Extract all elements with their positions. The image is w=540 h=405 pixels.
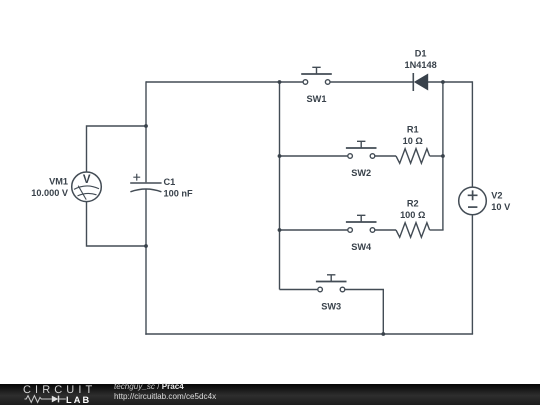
svg-text:100 Ω: 100 Ω — [400, 210, 425, 220]
node R1 right — [441, 154, 445, 158]
svg-text:10.000 V: 10.000 V — [31, 188, 69, 198]
node SW2 row — [278, 154, 282, 158]
footer bar — [0, 384, 540, 405]
wire top from left corner to SW1 — [146, 81, 303, 83]
wire SW4 row left — [280, 229, 348, 231]
wire R1 to right — [430, 155, 443, 157]
svg-text:R1: R1 — [407, 124, 419, 134]
svg-text:V2: V2 — [491, 191, 502, 201]
node SW3 bottom — [381, 332, 385, 336]
wire bottom — [145, 333, 473, 335]
svg-text:C1: C1 — [164, 177, 176, 187]
wire VM1 top stub — [87, 126, 147, 172]
wire VM1 bottom stub — [87, 202, 147, 246]
node top-center — [278, 80, 282, 84]
wire SW3 right and down — [345, 290, 383, 335]
wire SW4 to R2 — [375, 229, 396, 231]
capacitor C1 — [130, 174, 161, 192]
wire SW3 row left — [280, 289, 318, 291]
wire center vertical — [279, 82, 281, 290]
voltmeter VM1 — [72, 172, 102, 202]
svg-text:10 V: 10 V — [491, 202, 511, 212]
wire SW1 to D1 — [330, 81, 413, 83]
svg-text:V: V — [83, 174, 91, 186]
footer url — [114, 392, 216, 401]
CircuitLab logo — [23, 385, 96, 396]
svg-text:R2: R2 — [407, 198, 419, 208]
wire right vertical below V2 — [471, 215, 473, 334]
node SW4 row — [278, 228, 282, 232]
node VM1 bottom — [144, 244, 148, 248]
wire R branch vertical — [442, 82, 444, 230]
voltage source V2 — [459, 187, 487, 215]
wire D1 to top-right corner — [428, 81, 472, 83]
svg-text:SW1: SW1 — [307, 94, 327, 104]
svg-text:VM1: VM1 — [49, 177, 68, 187]
node VM1 top — [144, 124, 148, 128]
wire right vertical above V2 — [471, 81, 473, 186]
wire left vertical below C1 — [145, 189, 147, 335]
switch SW4 — [346, 215, 377, 232]
footer title — [114, 382, 184, 391]
wire R2 to right — [430, 229, 444, 231]
svg-text:D1: D1 — [415, 49, 427, 59]
switch SW1 — [301, 67, 332, 84]
svg-text:100 nF: 100 nF — [164, 188, 193, 198]
svg-text:10 Ω: 10 Ω — [403, 136, 423, 146]
junction node dots — [144, 80, 445, 336]
switch SW3 — [316, 275, 347, 292]
resistor R1 — [396, 149, 430, 164]
switch SW2 — [346, 141, 377, 158]
wire left vertical above C1 — [145, 81, 147, 182]
wire SW2 to R1 — [375, 155, 396, 157]
wire SW2 row left — [280, 155, 348, 157]
svg-text:SW3: SW3 — [321, 301, 341, 311]
svg-text:SW2: SW2 — [351, 168, 371, 178]
node D1 right — [441, 80, 445, 84]
svg-text:SW4: SW4 — [351, 242, 372, 252]
resistor R2 — [396, 223, 430, 238]
diode D1 — [413, 73, 428, 91]
svg-text:1N4148: 1N4148 — [405, 60, 437, 70]
